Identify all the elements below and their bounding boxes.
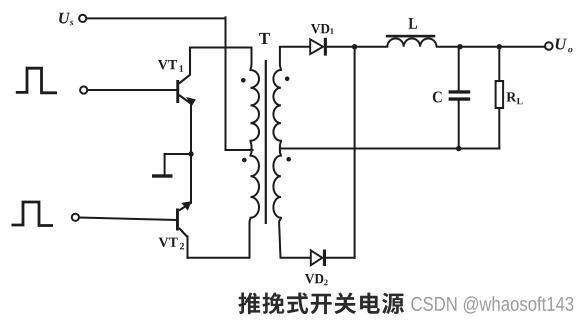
capacitor C plates [449, 90, 471, 93]
label VD2 [305, 274, 328, 285]
node L-C junction dot [457, 44, 462, 49]
transformer polarity dot secondary top [285, 77, 290, 82]
label T [259, 33, 270, 44]
label VT2 [159, 238, 184, 250]
label RL [506, 92, 522, 104]
transformer T secondary winding [273, 47, 281, 258]
wire C bottom lead [458, 101, 460, 149]
wire Us top horizontal [87, 17, 226, 19]
wire VT2 collector rail to primary bottom [188, 257, 250, 259]
inductor L [387, 38, 436, 46]
wire C top lead [458, 47, 460, 91]
wire base 1 [88, 89, 177, 91]
wire VT1 emitter to ground junction [190, 103, 192, 154]
node output terminal Uo [545, 42, 553, 50]
wire VT1 collector rail to primary top [190, 47, 252, 49]
wire ground junction to VT2 emitter [190, 154, 192, 203]
caption watermark CSDN @whaosoft143 [411, 296, 573, 313]
transformer core [265, 60, 267, 224]
label Us [59, 13, 73, 26]
wire ground stub [164, 154, 166, 175]
wire VT2 collector down [187, 237, 189, 258]
wire RL bottom lead [498, 108, 500, 149]
transformer polarity dot primary top [241, 78, 246, 83]
caption Chinese: 推挽式开关电源 [239, 292, 405, 314]
wire primary center tap [226, 149, 253, 151]
ground [152, 174, 173, 177]
label Uo [556, 39, 573, 53]
diode VD1 [310, 39, 323, 54]
label VT1 [158, 60, 183, 72]
transformer T primary winding [250, 48, 260, 258]
node Us input terminal [79, 15, 86, 22]
resistor RL body [496, 81, 504, 108]
wire L output to terminal [437, 46, 545, 48]
node RL top junction dot [497, 44, 502, 49]
wire bottom return rail [280, 148, 499, 150]
transistor VT2 [179, 203, 191, 237]
node A junction dot [352, 44, 357, 49]
wire VD2 cathode to node A vertical [326, 257, 355, 259]
label VD1 [311, 24, 334, 34]
diode VD2 [311, 250, 323, 265]
node input terminal 1 [80, 86, 87, 93]
transistor VT1 [179, 48, 191, 104]
node ground junction dot [188, 151, 193, 156]
wire RL top lead [498, 47, 500, 81]
label C [433, 91, 442, 102]
node input terminal 2 [72, 214, 79, 221]
pulse waveform 2 [12, 202, 54, 226]
wire secondary bottom to VD2 anode [281, 257, 312, 259]
wire base 2 [80, 218, 177, 221]
wire VD1 cathode to node A [327, 46, 387, 48]
pulse waveform 1 [16, 68, 57, 93]
wire ground horizontal [165, 153, 191, 155]
transformer polarity dot primary bottom [242, 158, 247, 163]
wire secondary top to VD1 anode [280, 46, 310, 48]
wire Us vertical feed to center tap [225, 17, 227, 150]
transformer polarity dot secondary bottom [286, 157, 291, 162]
node C bottom junction dot [456, 146, 461, 151]
wire node A vertical VD1-VD2 [354, 47, 356, 258]
label L [409, 18, 417, 29]
